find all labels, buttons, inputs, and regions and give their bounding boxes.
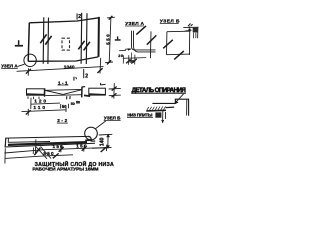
svg-text:УЗЕЛ А: УЗЕЛ А [1, 64, 18, 69]
section mark 2 top [77, 13, 82, 20]
ticks below bearing [193, 33, 195, 39]
rebar dark bar [8, 142, 87, 145]
bottom ext line right [92, 147, 112, 150]
lens end caps [44, 88, 46, 96]
detail circle [85, 127, 98, 140]
callout circle on corner [24, 54, 36, 66]
dim 550 right of plan [105, 17, 115, 63]
svg-text:2-2: 2-2 [57, 118, 67, 123]
dim 140 arrowheads [106, 134, 110, 138]
svg-text:110: 110 [33, 105, 45, 111]
slash A1 [136, 26, 146, 35]
step polyline [152, 99, 188, 116]
top tick line circle to dim [99, 133, 113, 136]
corner bearing step [193, 28, 198, 33]
extension below corner [131, 53, 133, 65]
slab right end step [88, 136, 95, 141]
dim row1 150/150 [4, 148, 106, 153]
dims under left brick [30, 98, 32, 109]
leader from circle to Uzel B heading [96, 121, 106, 129]
break slashes pair 2 [78, 41, 90, 51]
tick at x35 [34, 139, 37, 153]
middle lens section [45, 89, 82, 95]
svg-text:150: 150 [76, 144, 87, 149]
plan outline [28, 17, 99, 61]
corner L double line [132, 31, 156, 52]
bottom dim line of uzel A [123, 57, 146, 60]
small mark right of 1-1 heading [73, 77, 75, 81]
right vertical [149, 31, 152, 58]
slash B1 [163, 40, 173, 49]
brick under ticks [28, 96, 39, 99]
svg-text:1040: 1040 [64, 65, 75, 71]
dim 1040 below plan [17, 67, 104, 72]
rect outline [167, 26, 191, 55]
svg-text:50: 50 [62, 104, 67, 109]
slash B2 [174, 51, 184, 59]
leader to Uzel A label [18, 64, 25, 66]
slab bottom line [5, 143, 95, 147]
break line pair 2 [81, 13, 87, 64]
svg-text:1-1: 1-1 [58, 80, 68, 85]
svg-text:УЗЕЛ Б: УЗЕЛ Б [104, 116, 121, 121]
bearing arrow [185, 30, 190, 33]
left edge [4, 138, 7, 147]
section mark 1 left [15, 40, 23, 46]
50 between ticks [60, 104, 62, 109]
dim row2 550 [5, 155, 73, 159]
vertical dim 140 [107, 134, 109, 148]
right brick [89, 88, 106, 95]
svg-text:2: 2 [85, 74, 88, 80]
left brick [27, 89, 45, 95]
svg-text:550: 550 [106, 34, 111, 45]
svg-text:150: 150 [53, 144, 64, 149]
small ticks under lens [66, 96, 68, 99]
hatch bar [146, 109, 166, 112]
small L mark above right brick [100, 83, 102, 85]
svg-text:50: 50 [76, 101, 80, 105]
leader arrow [176, 94, 184, 103]
tiny slashes above bearing [188, 24, 191, 27]
section mark 1 right [115, 36, 121, 40]
slab top line [6, 136, 89, 138]
section mark 2 bottom [83, 69, 88, 80]
left dim of uzel A [119, 49, 126, 51]
break line pair 1 [43, 17, 48, 64]
svg-text:140: 140 [99, 137, 105, 146]
svg-text:50: 50 [129, 58, 135, 63]
vertical line + arrow below square [162, 111, 164, 123]
break slashes pair 1 [40, 34, 51, 44]
leader lines to note [36, 147, 47, 159]
inner step line left end [8, 138, 50, 142]
right thickness dim [113, 83, 116, 98]
svg-text:20: 20 [118, 54, 123, 58]
svg-text:120: 120 [34, 99, 46, 105]
slash A2 [147, 35, 157, 44]
svg-text:2: 2 [78, 14, 81, 20]
svg-text:50: 50 [71, 102, 75, 106]
svg-text:НИЗ ПЛИТЫ: НИЗ ПЛИТЫ [127, 112, 153, 117]
dashed opening [62, 38, 70, 50]
dark bearing square [155, 112, 161, 117]
